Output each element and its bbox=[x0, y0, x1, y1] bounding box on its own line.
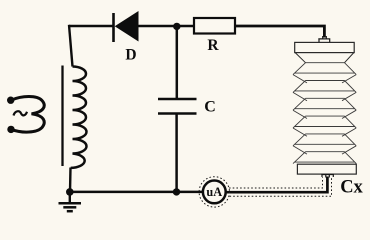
bushing base rectangle bbox=[297, 164, 356, 174]
bushing shed 5 bbox=[293, 134, 356, 154]
primary terminal dot top bbox=[7, 97, 14, 104]
bushing bottom terminal bbox=[321, 175, 334, 178]
svg-text:Cx: Cx bbox=[340, 178, 363, 198]
bushing shed 6 bbox=[293, 152, 356, 164]
diode D triangle bbox=[115, 11, 139, 42]
microammeter uA circle bbox=[203, 181, 226, 204]
svg-text:uA: uA bbox=[206, 185, 222, 199]
node ground junction (dot) bbox=[66, 188, 74, 196]
ground symbol bbox=[59, 192, 82, 211]
transformer primary winding bbox=[11, 97, 44, 133]
wire secondary bottom to ground junction bbox=[69, 168, 72, 193]
shield dashed around measuring lead bbox=[199, 177, 331, 207]
node junction top (dot) bbox=[173, 23, 180, 30]
wire capacitor branch lower bbox=[175, 115, 178, 192]
wire resistor to bushing top bbox=[235, 26, 324, 38]
bushing shed 2 bbox=[293, 81, 356, 101]
bushing top terminal bbox=[318, 36, 330, 42]
resistor R body bbox=[194, 18, 235, 34]
primary terminal dot bottom bbox=[7, 126, 14, 133]
transformer secondary winding bbox=[71, 67, 87, 168]
wire top-left vertical (corner down to secondary top) bbox=[69, 25, 73, 67]
bushing neck from cap bbox=[295, 53, 354, 63]
svg-text:D: D bbox=[125, 47, 136, 64]
bushing cap rectangle bbox=[295, 42, 355, 52]
svg-text:R: R bbox=[207, 37, 219, 54]
bushing shed 4 bbox=[293, 116, 356, 136]
bushing shed 3 bbox=[293, 98, 356, 118]
wire capacitor branch upper bbox=[176, 26, 179, 98]
svg-text:C: C bbox=[204, 98, 216, 115]
node junction bottom-middle (dot) bbox=[173, 188, 180, 195]
wire bushing bottom to meter (solid) bbox=[226, 177, 327, 193]
wire top-left horizontal (transformer top to diode) bbox=[69, 25, 114, 27]
bushing shed 1 bbox=[293, 63, 356, 83]
wire bottom (ground junction to meter) bbox=[70, 191, 204, 194]
capacitor C top plate bbox=[158, 98, 197, 101]
wire diode to junction to resistor bbox=[139, 25, 195, 27]
transformer core bar bbox=[61, 66, 63, 167]
AC tilde symbol bbox=[14, 111, 28, 115]
capacitor C bottom plate bbox=[158, 112, 197, 115]
diode D cathode bar bbox=[112, 13, 115, 42]
